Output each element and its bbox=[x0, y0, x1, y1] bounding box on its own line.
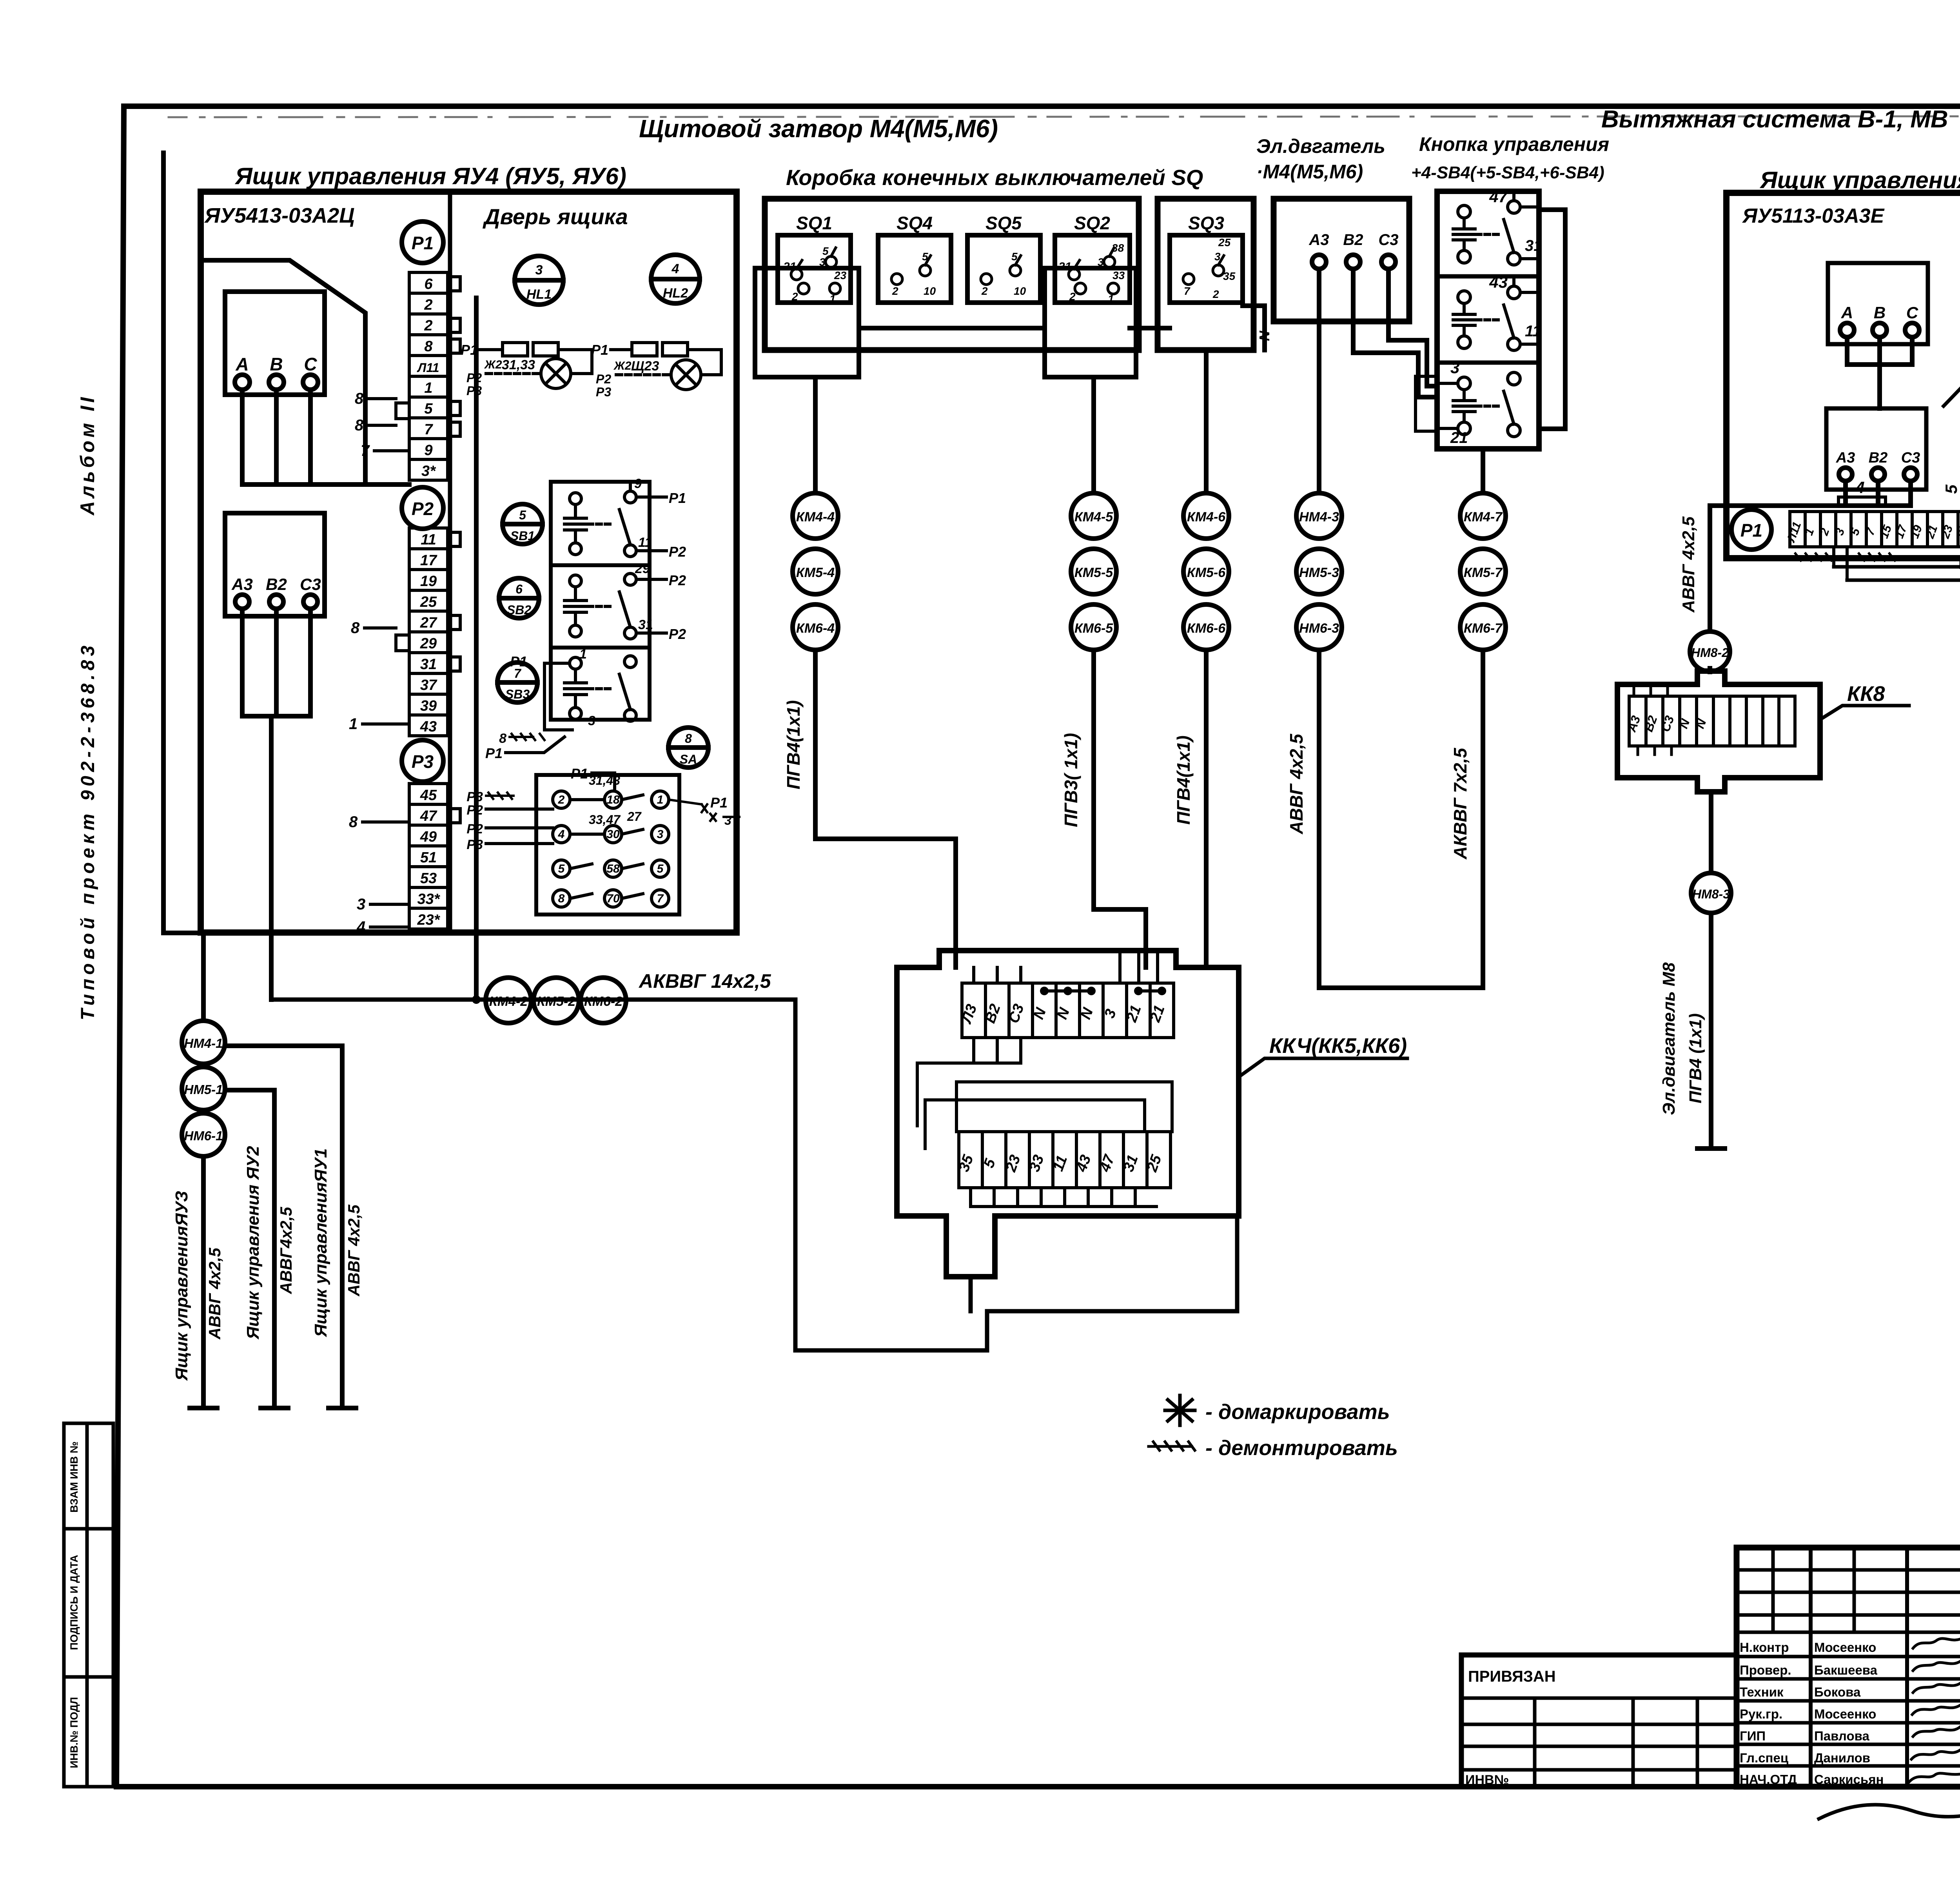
svg-text:В2: В2 bbox=[1343, 231, 1363, 249]
svg-text:Вытяжная система В-1, МВ: Вытяжная система В-1, МВ bbox=[1601, 106, 1948, 133]
svg-text:Р1: Р1 bbox=[412, 233, 434, 253]
cable marker NM6-1 bbox=[182, 1113, 225, 1156]
21-bridge dots bbox=[1138, 989, 1162, 993]
svg-text:51: 51 bbox=[420, 849, 437, 866]
drop wire SQ3 bbox=[1204, 350, 1209, 493]
scan noise dashed band bbox=[169, 116, 1960, 117]
svg-text:НМ6-3: НМ6-3 bbox=[1299, 621, 1339, 636]
svg-text:+4-SB4(+5-SB4,+6-SB4): +4-SB4(+5-SB4,+6-SB4) bbox=[1411, 163, 1604, 182]
svg-text:НМ5-3: НМ5-3 bbox=[1299, 565, 1339, 580]
cable PGV4b run to KK4 bbox=[1204, 650, 1209, 967]
svg-text:31: 31 bbox=[420, 656, 437, 673]
svg-text:1: 1 bbox=[1108, 293, 1114, 305]
selector block SA bbox=[536, 775, 679, 915]
svg-text:АКВВГ 7х2,5: АКВВГ 7х2,5 bbox=[1450, 748, 1470, 860]
svg-text:SA: SA bbox=[680, 752, 697, 766]
svg-text:5: 5 bbox=[558, 862, 565, 875]
supply riser wire bbox=[163, 153, 203, 1021]
svg-text:ПГВ3( 1х1): ПГВ3( 1х1) bbox=[1061, 733, 1081, 827]
limit switch SQ3 bbox=[1170, 235, 1243, 303]
terminal C3 bbox=[1904, 468, 1917, 481]
SB3 contact section bbox=[485, 647, 636, 761]
connector box KK4 outline bbox=[897, 951, 1239, 1277]
svg-text:HL2: HL2 bbox=[663, 286, 688, 301]
svg-text:Р1: Р1 bbox=[571, 766, 588, 782]
svg-text:Р2: Р2 bbox=[412, 499, 434, 519]
svg-text:11: 11 bbox=[421, 532, 436, 548]
cable marker NM5-3 bbox=[1296, 549, 1342, 594]
demount hatch marks under strip bbox=[1794, 553, 1831, 561]
SB4 section 3 bbox=[1437, 358, 1520, 446]
svg-text:38: 38 bbox=[1112, 242, 1124, 254]
svg-text:НМ5-1: НМ5-1 bbox=[184, 1082, 223, 1097]
limit switch SQ4 bbox=[878, 235, 951, 303]
wire KK8 to NM8-3 bbox=[1709, 792, 1713, 873]
left rows horizontals bbox=[1737, 1570, 1960, 1766]
svg-text:5: 5 bbox=[424, 401, 433, 417]
svg-text:31: 31 bbox=[638, 617, 653, 632]
svg-text:Рук.гр.: Рук.гр. bbox=[1740, 1707, 1782, 1721]
SB4 section 2 bbox=[1453, 273, 1541, 350]
svg-text:В: В bbox=[270, 354, 283, 374]
svg-text:8: 8 bbox=[349, 813, 358, 831]
svg-text:5: 5 bbox=[1011, 250, 1018, 263]
pin labels left of strip bbox=[349, 390, 370, 936]
svg-text:Р2: Р2 bbox=[669, 544, 686, 560]
relay circle P1 bbox=[402, 221, 443, 263]
svg-text:ЯУ5113-03А3Е: ЯУ5113-03А3Е bbox=[1742, 205, 1885, 227]
svg-text:70: 70 bbox=[606, 892, 620, 905]
lower bus wires bbox=[1834, 563, 1960, 580]
svg-text:КК8: КК8 bbox=[1847, 682, 1885, 706]
cable marker NM8-2 bbox=[1690, 631, 1730, 671]
terminal B bbox=[269, 375, 284, 390]
svg-text:11: 11 bbox=[1525, 323, 1541, 340]
cable marker KM5-4 bbox=[793, 549, 838, 594]
svg-text:33,47: 33,47 bbox=[589, 813, 621, 827]
svg-text:3: 3 bbox=[724, 813, 731, 827]
cable marker KM6-2 bbox=[581, 978, 626, 1023]
svg-text:Н.контр: Н.контр bbox=[1740, 1640, 1789, 1655]
cable PGV4 run to KK4 bbox=[815, 650, 956, 967]
role names column bbox=[1740, 1640, 1797, 1787]
svg-text:Эл.двигатель М8: Эл.двигатель М8 bbox=[1659, 962, 1679, 1115]
bus between junction boxes bbox=[859, 306, 1265, 350]
svg-text:Саркисьян: Саркисьян bbox=[1814, 1772, 1884, 1787]
wires A3B2C3 bus and cable to NM8-2 bbox=[1710, 481, 1911, 631]
svg-text:Ящик управленияЯУ8: Ящик управленияЯУ8 bbox=[1759, 167, 1960, 193]
svg-text:В: В bbox=[1874, 303, 1886, 322]
svg-text:В2: В2 bbox=[1869, 450, 1888, 466]
svg-text:2: 2 bbox=[1212, 288, 1219, 300]
svg-text:КМ5-7: КМ5-7 bbox=[1464, 565, 1503, 580]
title block outline bbox=[1737, 1548, 1960, 1787]
svg-text:10: 10 bbox=[924, 285, 936, 297]
svg-text:4: 4 bbox=[558, 828, 565, 841]
button block SB1-SB3 bbox=[551, 482, 650, 720]
svg-text:Р3: Р3 bbox=[412, 751, 434, 772]
svg-text:45: 45 bbox=[420, 787, 437, 804]
legend mark hatch bbox=[1149, 1442, 1195, 1450]
svg-text:27: 27 bbox=[627, 809, 642, 824]
svg-text:НМ4-3: НМ4-3 bbox=[1299, 510, 1339, 524]
button block SB4 bbox=[1437, 191, 1539, 449]
svg-text:Р2: Р2 bbox=[669, 572, 686, 588]
svg-text:1: 1 bbox=[829, 293, 836, 305]
svg-text:АВВГ 4х2,5: АВВГ 4х2,5 bbox=[1286, 733, 1307, 835]
terminal C3 bbox=[303, 595, 318, 609]
svg-text:С: С bbox=[304, 354, 317, 374]
svg-text:53: 53 bbox=[420, 870, 437, 887]
wires A3 B2 C3 to bus bbox=[242, 609, 310, 1000]
relay circle P2 bbox=[402, 487, 443, 529]
input box A3 B2 C3 (YAU8) bbox=[1826, 408, 1926, 490]
wire NM4-1 to YAU1 drop bbox=[225, 1046, 356, 1408]
svg-text:Дверь ящика: Дверь ящика bbox=[483, 204, 628, 229]
svg-text:Альбом II: Альбом II bbox=[76, 394, 98, 516]
limit switch enclosure 2 bbox=[1158, 199, 1254, 350]
svg-text:ПГВ4 (1х1): ПГВ4 (1х1) bbox=[1686, 1013, 1705, 1103]
svg-text:КМ6-2: КМ6-2 bbox=[584, 994, 622, 1009]
svg-text:АВВГ 4х2,5: АВВГ 4х2,5 bbox=[345, 1205, 363, 1297]
svg-text:7: 7 bbox=[424, 421, 433, 438]
svg-text:8: 8 bbox=[355, 417, 364, 434]
big signature flourish bbox=[1819, 1792, 1960, 1819]
button circle SB2 bbox=[499, 578, 539, 618]
strip bundle wire down bbox=[474, 298, 479, 1000]
lamp chain 2 bbox=[591, 342, 721, 399]
svg-text:8: 8 bbox=[355, 390, 364, 407]
svg-text:3: 3 bbox=[588, 713, 595, 728]
lamp chain 1 bbox=[461, 342, 592, 398]
KK8 inner tabs bbox=[1634, 688, 1671, 755]
svg-text:Данилов: Данилов bbox=[1814, 1751, 1870, 1765]
svg-text:1: 1 bbox=[579, 647, 587, 662]
svg-text:3: 3 bbox=[535, 263, 543, 278]
strip side tabs bbox=[396, 277, 460, 823]
svg-text:Бакшеева: Бакшеева bbox=[1814, 1663, 1878, 1677]
internal link wires bbox=[917, 1038, 1172, 1149]
svg-text:8: 8 bbox=[351, 619, 360, 637]
svg-text:1: 1 bbox=[424, 380, 432, 396]
svg-text:КМ5-2: КМ5-2 bbox=[537, 994, 575, 1009]
connector box KK8 outline bbox=[1617, 671, 1820, 792]
svg-text:31,33: 31,33 bbox=[502, 357, 535, 372]
svg-text:6: 6 bbox=[515, 582, 523, 596]
KK4 upper terminal strip bbox=[962, 983, 1174, 1038]
terminal B bbox=[1873, 323, 1887, 337]
svg-text:ГИП: ГИП bbox=[1740, 1729, 1766, 1743]
signatures squiggles bbox=[1909, 1637, 1960, 1782]
svg-text:КМ6-4: КМ6-4 bbox=[796, 621, 835, 636]
svg-text:Р1: Р1 bbox=[669, 490, 686, 506]
terminal C bbox=[1905, 323, 1919, 337]
svg-text:6: 6 bbox=[424, 276, 433, 292]
svg-text:43: 43 bbox=[420, 719, 437, 735]
terminal A bbox=[235, 375, 250, 390]
svg-text:- домаркировать: - домаркировать bbox=[1205, 1400, 1390, 1424]
SB4 bus enclosure bbox=[1539, 210, 1565, 429]
svg-text:ИНВ.№ ПОДЛ: ИНВ.№ ПОДЛ bbox=[68, 1697, 80, 1768]
svg-text:КМ5-4: КМ5-4 bbox=[796, 565, 835, 580]
svg-text:23: 23 bbox=[834, 269, 847, 281]
SB2 contact section bbox=[564, 561, 686, 642]
svg-text:ЯУ5413-03А2Ц: ЯУ5413-03А2Ц bbox=[204, 204, 355, 227]
input box A3 B2 C3 bbox=[225, 513, 325, 616]
svg-text:5: 5 bbox=[822, 245, 829, 257]
drop wire SQ1 bbox=[813, 377, 818, 493]
svg-text:Р1: Р1 bbox=[485, 745, 503, 761]
button circle SB1 bbox=[503, 504, 543, 544]
exit stubs below strip bbox=[971, 1188, 1156, 1207]
terminal strip group2 bbox=[409, 528, 448, 736]
svg-text:3: 3 bbox=[1450, 358, 1459, 377]
person names column bbox=[1814, 1640, 1884, 1787]
SB1 contact section bbox=[564, 476, 686, 560]
svg-text:SQ2: SQ2 bbox=[1074, 213, 1110, 233]
svg-text:8: 8 bbox=[424, 338, 433, 355]
cable marker KM4-6 bbox=[1183, 493, 1229, 539]
drop wire SQ2 bbox=[1091, 377, 1096, 493]
junction sub-box SQ1 bbox=[755, 268, 859, 377]
terminal A bbox=[1840, 323, 1854, 337]
svg-text:33*: 33* bbox=[417, 891, 440, 907]
svg-text:Мосеенко: Мосеенко bbox=[1814, 1640, 1876, 1655]
N-bridge dots bbox=[1044, 989, 1091, 993]
wire NM6-1 to YAU3 drop bbox=[190, 1156, 217, 1408]
motor terminal B2 bbox=[1346, 255, 1360, 269]
trunk cable U-loop to KK4 bbox=[795, 1000, 1237, 1350]
svg-text:А: А bbox=[1841, 303, 1853, 322]
cable marker KM4-5 bbox=[1071, 493, 1116, 539]
cable AVVG4x2.5 run bbox=[1319, 650, 1483, 988]
svg-text:Мосеенко: Мосеенко bbox=[1814, 1707, 1876, 1721]
svg-text:5: 5 bbox=[1942, 484, 1960, 494]
svg-text:ПГВ4(1х1): ПГВ4(1х1) bbox=[783, 700, 804, 789]
input box A B C (YAU8) bbox=[1828, 263, 1928, 344]
svg-text:Р1: Р1 bbox=[1740, 520, 1762, 541]
motor terminal C3 bbox=[1381, 255, 1396, 269]
svg-text:НМ4-1: НМ4-1 bbox=[184, 1036, 223, 1051]
MOTOR-SB4 bbox=[1274, 187, 1565, 988]
svg-text:SB1: SB1 bbox=[510, 529, 535, 543]
svg-text:КМ4-4: КМ4-4 bbox=[796, 510, 835, 524]
svg-text:8: 8 bbox=[685, 731, 692, 746]
SB4 left notch bbox=[1416, 376, 1437, 431]
svg-text:А3: А3 bbox=[1308, 231, 1329, 249]
svg-text:21: 21 bbox=[783, 260, 796, 273]
svg-text:SB2: SB2 bbox=[507, 603, 531, 617]
svg-text:5: 5 bbox=[519, 508, 526, 522]
svg-text:3: 3 bbox=[819, 256, 826, 268]
svg-text:HL1: HL1 bbox=[526, 287, 552, 302]
svg-text:2: 2 bbox=[424, 318, 432, 334]
svg-text:2: 2 bbox=[558, 793, 565, 806]
wires ABC bus bbox=[1847, 337, 1912, 408]
YAU8 bbox=[1679, 193, 1960, 800]
cable marker NM8-3 bbox=[1691, 873, 1731, 913]
svg-text:АВВГ 4х2,5: АВВГ 4х2,5 bbox=[1679, 516, 1698, 613]
feed wire polyline bbox=[201, 260, 365, 484]
KK4 lower terminal strip bbox=[959, 1132, 1171, 1188]
limit switch SQ2 bbox=[1055, 235, 1130, 303]
svg-text:Техник: Техник bbox=[1740, 1685, 1784, 1699]
svg-text:SB3: SB3 bbox=[505, 687, 530, 701]
svg-text:КМ4-5: КМ4-5 bbox=[1074, 510, 1113, 524]
svg-text:1: 1 bbox=[657, 793, 664, 806]
svg-text:2: 2 bbox=[791, 290, 798, 303]
cable marker KM5-6 bbox=[1183, 549, 1229, 594]
svg-text:3*: 3* bbox=[421, 463, 436, 479]
cable marker KM5-5 bbox=[1071, 549, 1116, 594]
svg-text:8: 8 bbox=[558, 892, 565, 905]
door partition wire bbox=[448, 192, 452, 933]
svg-text:3: 3 bbox=[1214, 250, 1221, 263]
KK4 bbox=[897, 951, 1407, 1311]
svg-text:Эл.двгатель: Эл.двгатель bbox=[1256, 135, 1385, 157]
svg-text:Кнопка управления: Кнопка управления bbox=[1419, 133, 1609, 155]
svg-text:7: 7 bbox=[657, 892, 664, 905]
svg-text:21: 21 bbox=[1058, 260, 1071, 273]
wire motor B2 loop bbox=[1353, 269, 1437, 397]
svg-text:5: 5 bbox=[657, 862, 664, 875]
svg-text:2: 2 bbox=[892, 285, 898, 297]
wire motor C3 loop bbox=[1388, 269, 1437, 386]
svg-text:Р2: Р2 bbox=[466, 803, 483, 818]
svg-text:29: 29 bbox=[635, 561, 650, 576]
svg-text:Р2: Р2 bbox=[466, 822, 483, 836]
wires A B C down to bus bbox=[242, 390, 409, 484]
svg-text:·М4(М5,М6): ·М4(М5,М6) bbox=[1256, 161, 1363, 183]
svg-text:- демонтировать: - демонтировать bbox=[1205, 1436, 1398, 1460]
svg-text:47: 47 bbox=[420, 808, 437, 824]
svg-text:33: 33 bbox=[1112, 269, 1125, 281]
TITLEBLOCK bbox=[1461, 1548, 1960, 1830]
svg-text:КМ6-6: КМ6-6 bbox=[1187, 621, 1226, 636]
junction sub-box SQ2 bbox=[1045, 268, 1136, 377]
svg-text:19: 19 bbox=[420, 573, 437, 590]
svg-text:Р1: Р1 bbox=[591, 342, 608, 358]
terminal A3 bbox=[1839, 468, 1852, 481]
svg-text:29: 29 bbox=[420, 635, 437, 652]
attachment table bbox=[1461, 1655, 1737, 1787]
horizontal terminal strip P1 bbox=[1790, 512, 1960, 547]
cable marker NM5-1 bbox=[182, 1067, 225, 1110]
svg-text:SQ1: SQ1 bbox=[796, 213, 832, 233]
svg-text:С3: С3 bbox=[300, 575, 321, 593]
strip tail wires bbox=[1834, 547, 1960, 580]
svg-text:8: 8 bbox=[499, 731, 506, 746]
cable marker KM4-4 bbox=[793, 493, 838, 539]
svg-text:18: 18 bbox=[606, 793, 620, 806]
wire NM8-2 to KK8 bbox=[1708, 668, 1712, 672]
lamp circle HL1 bbox=[515, 256, 563, 305]
svg-text:КМ6-7: КМ6-7 bbox=[1464, 621, 1503, 636]
svg-text:НМ8-3: НМ8-3 bbox=[1692, 887, 1730, 901]
svg-text:НАЧ.ОТД: НАЧ.ОТД bbox=[1740, 1772, 1797, 1787]
svg-text:Ящик управления ЯУ2: Ящик управления ЯУ2 bbox=[243, 1146, 263, 1340]
cable marker KM5-7 bbox=[1460, 549, 1506, 594]
terminal strip group3 bbox=[409, 784, 448, 929]
bracket label 4 bbox=[1838, 497, 1886, 504]
svg-text:НМ8-2: НМ8-2 bbox=[1691, 646, 1729, 660]
svg-text:Р3: Р3 bbox=[466, 837, 483, 852]
svg-text:КМ4-7: КМ4-7 bbox=[1464, 510, 1503, 524]
svg-text:4: 4 bbox=[356, 918, 365, 936]
svg-text:37: 37 bbox=[420, 677, 437, 693]
svg-text:В2: В2 bbox=[266, 575, 287, 593]
svg-text:А: А bbox=[235, 354, 249, 374]
svg-text:Гл.спец: Гл.спец bbox=[1740, 1751, 1788, 1765]
svg-text:ВЗАМ ИНВ №: ВЗАМ ИНВ № bbox=[68, 1441, 80, 1513]
svg-text:КМ4-2: КМ4-2 bbox=[489, 994, 528, 1009]
svg-text:4: 4 bbox=[671, 261, 679, 276]
svg-text:Провер.: Провер. bbox=[1740, 1663, 1791, 1677]
svg-text:47: 47 bbox=[1489, 187, 1508, 206]
svg-text:АВВГ 4х2,5: АВВГ 4х2,5 bbox=[205, 1248, 224, 1340]
svg-text:Р2: Р2 bbox=[466, 371, 482, 385]
svg-text:КМ6-5: КМ6-5 bbox=[1074, 621, 1113, 636]
svg-text:Р2: Р2 bbox=[669, 626, 686, 642]
cable marker NM6-3 bbox=[1296, 604, 1342, 650]
mini grid extra verticals bbox=[1773, 1548, 1854, 1632]
svg-text:Щитовой затвор М4(М5,М6): Щитовой затвор М4(М5,М6) bbox=[639, 114, 998, 143]
svg-text:КМ4-6: КМ4-6 bbox=[1187, 510, 1226, 524]
svg-text:3: 3 bbox=[1098, 256, 1104, 268]
svg-text:ПГВ4(1х1): ПГВ4(1х1) bbox=[1173, 735, 1194, 825]
svg-text:Л11: Л11 bbox=[417, 361, 439, 375]
cable marker KM4-7 bbox=[1460, 493, 1506, 539]
svg-text:SQ4: SQ4 bbox=[897, 213, 933, 233]
svg-text:58: 58 bbox=[606, 862, 620, 875]
svg-text:Р1: Р1 bbox=[510, 653, 527, 670]
svg-text:Ящик управленияЯУ1: Ящик управленияЯУ1 bbox=[311, 1149, 330, 1337]
wire NM5-1 to YAU2 drop bbox=[225, 1090, 288, 1408]
button circle SB3 bbox=[497, 662, 537, 702]
svg-text:2: 2 bbox=[981, 285, 988, 297]
terminal A3 bbox=[235, 595, 249, 609]
left bottom stamp strip bbox=[64, 1423, 113, 1787]
svg-text:Павлова: Павлова bbox=[1814, 1729, 1869, 1743]
svg-text:11: 11 bbox=[638, 535, 652, 550]
cable marker KM4-2 bbox=[486, 978, 531, 1023]
terminal B2 bbox=[269, 595, 283, 609]
cable marker KM6-7 bbox=[1460, 604, 1506, 650]
control box YAU4 outline bbox=[201, 192, 737, 933]
terminal strip group1 bbox=[409, 272, 448, 480]
svg-text:Р3: Р3 bbox=[466, 384, 482, 398]
svg-text:Бокова: Бокова bbox=[1814, 1685, 1861, 1699]
svg-text:21: 21 bbox=[1450, 429, 1468, 446]
leader KK8 label bbox=[1824, 706, 1909, 717]
cable marker KM5-2 bbox=[534, 978, 579, 1023]
SB4 section 1 bbox=[1453, 187, 1543, 265]
terminal C bbox=[303, 375, 318, 390]
svg-text:30: 30 bbox=[606, 828, 620, 841]
legend mark star bbox=[1165, 1395, 1195, 1425]
cable to motor M8 bbox=[1697, 913, 1725, 1149]
trunk cable AKVVG14 horizontal bbox=[271, 998, 795, 1002]
svg-text:17: 17 bbox=[420, 552, 437, 569]
relay circle P1 bbox=[1731, 510, 1771, 550]
SA wiring labels bbox=[466, 766, 739, 852]
svg-text:Ящик управленияЯУЗ: Ящик управленияЯУЗ bbox=[172, 1191, 191, 1381]
svg-text:35: 35 bbox=[1223, 270, 1236, 282]
cable marker NM4-3 bbox=[1296, 493, 1342, 539]
svg-text:ПОДПИСЬ И ДАТА: ПОДПИСЬ И ДАТА bbox=[68, 1555, 80, 1650]
svg-text:SQ5: SQ5 bbox=[985, 213, 1022, 233]
svg-text:С3: С3 bbox=[1901, 450, 1920, 466]
